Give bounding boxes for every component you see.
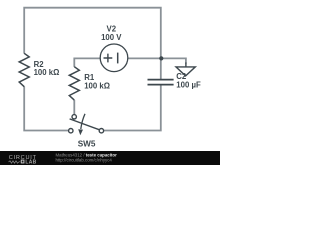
switch SW5 — [69, 114, 104, 133]
svg-text:100 µF: 100 µF — [176, 81, 201, 90]
wire top loop (left wire up, top wire, right wire down to junction) — [24, 8, 161, 59]
capacitor C2 — [148, 80, 174, 85]
junction node — [159, 56, 163, 60]
wire R1 top to V2 left terminal — [74, 58, 100, 67]
resistor R1 — [69, 67, 79, 100]
wire junction to ground stem — [161, 58, 186, 63]
voltage source V2 — [100, 44, 128, 72]
resistor R2 — [19, 53, 29, 86]
svg-text:100 V: 100 V — [101, 33, 122, 42]
watermark bar — [0, 151, 220, 165]
CircuitLab logo — [9, 155, 37, 165]
wire capacitor to bottom-right corner — [104, 85, 161, 130]
svg-text:100 kΩ: 100 kΩ — [34, 68, 60, 77]
watermark credits — [56, 153, 118, 163]
ground — [176, 63, 195, 76]
svg-text:LAB: LAB — [25, 159, 36, 165]
wire R1 bottom to switch pole — [73, 100, 75, 115]
svg-text:http://circuitlab.com/c/nhyyc4: http://circuitlab.com/c/nhyyc4 — [56, 158, 113, 163]
svg-text:SW5: SW5 — [78, 139, 96, 148]
svg-text:100 kΩ: 100 kΩ — [84, 81, 110, 90]
wire V2 right terminal to junction — [128, 57, 161, 59]
wire left lower and bottom-left — [24, 87, 68, 131]
wire junction to capacitor — [160, 58, 162, 79]
